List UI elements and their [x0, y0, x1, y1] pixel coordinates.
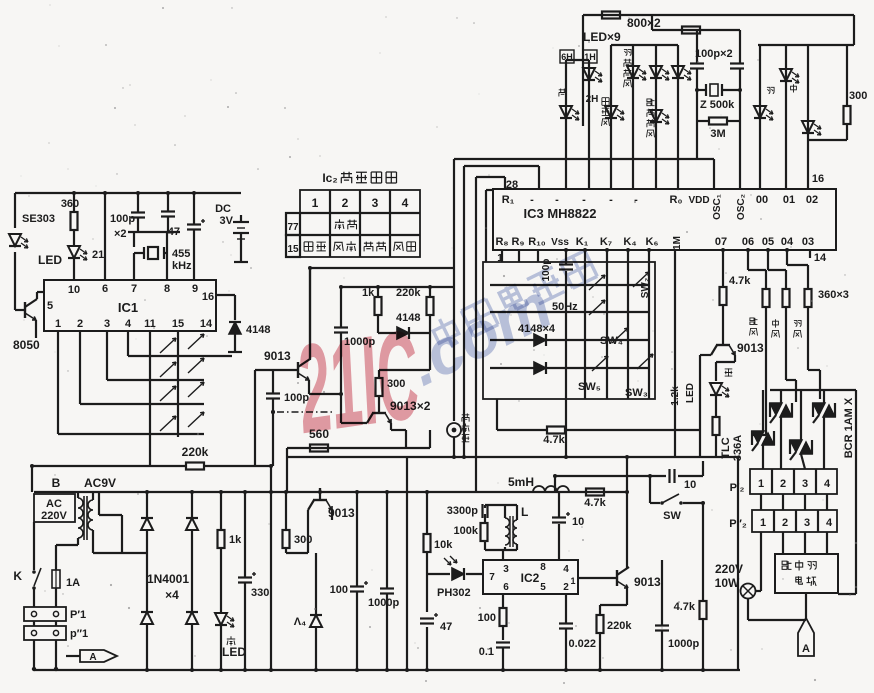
- label 定时: [364, 242, 386, 252]
- key switch S2b: [188, 358, 204, 373]
- transistor 9013 out: [617, 567, 661, 589]
- node P1 dots: [32, 667, 36, 671]
- LED red indicator: [68, 246, 87, 260]
- svg-text:SW₅: SW₅: [578, 381, 601, 393]
- resistor 1k c: [362, 287, 382, 315]
- resistor 360 weak: [805, 289, 812, 307]
- op-amp U IC3 MH8822 box: [493, 189, 836, 250]
- svg-text:3: 3: [104, 318, 110, 330]
- svg-text:R₁: R₁: [502, 194, 515, 206]
- connector P1b: [24, 626, 88, 640]
- svg-text:1: 1: [758, 478, 764, 490]
- wire 220k left rail: [32, 466, 186, 492]
- inductor 5mH: [533, 486, 569, 492]
- svg-text:A: A: [89, 652, 96, 663]
- wire sw branch: [555, 476, 703, 503]
- wire crystal to pin7: [133, 253, 135, 280]
- wire bus w4: [486, 190, 493, 262]
- triac TLC336A c: [752, 431, 774, 451]
- svg-text:4.7k: 4.7k: [543, 434, 565, 446]
- watermark blue cn: [430, 249, 598, 353]
- svg-text:100k: 100k: [454, 525, 479, 537]
- svg-text:455: 455: [172, 248, 190, 260]
- table keyboard matrix grid: [286, 190, 420, 257]
- svg-text:360×3: 360×3: [818, 289, 849, 301]
- capacitor 330: [238, 572, 256, 583]
- label 风种: [394, 242, 416, 251]
- wire pin3 row: [107, 331, 204, 380]
- svg-text:Λ₄: Λ₄: [294, 616, 307, 628]
- wire 1000p col: [386, 492, 388, 670]
- node junction dash: [271, 410, 275, 414]
- svg-text:220k: 220k: [607, 620, 632, 632]
- svg-text:10: 10: [572, 516, 584, 528]
- wire y268 node: [309, 268, 311, 360]
- LED green: [215, 613, 234, 627]
- label 弱自然风 vertical: [624, 49, 632, 87]
- wire triac tops: [763, 390, 856, 594]
- wire gate3: [808, 307, 820, 399]
- resistor 1.2k: [713, 417, 720, 435]
- svg-text:7: 7: [489, 572, 495, 583]
- diode 1N4001 d2: [186, 518, 198, 530]
- svg-text:LED: LED: [38, 253, 62, 267]
- wire 10k col: [426, 492, 428, 534]
- wire osc1 pin stub: [713, 159, 715, 189]
- wire pin07 down: [722, 250, 724, 287]
- wire 100 to 0.1: [502, 626, 504, 640]
- label table row ids: [287, 222, 299, 255]
- svg-text:4: 4: [402, 196, 409, 210]
- svg-text:2: 2: [342, 196, 349, 210]
- wire cap a: [137, 193, 139, 232]
- crystal Z 500k: [697, 84, 740, 111]
- svg-text:1A: 1A: [66, 577, 80, 589]
- wire 360 top: [73, 193, 75, 212]
- transistor 8050: [25, 299, 37, 320]
- svg-text:3M: 3M: [710, 128, 725, 140]
- key switch S1a: [160, 338, 176, 353]
- wire K1 col: [584, 250, 586, 399]
- svg-text:×2: ×2: [114, 228, 127, 240]
- wire bus w1: [454, 159, 714, 421]
- wire 1k links: [378, 287, 396, 333]
- wire battery down: [234, 233, 248, 262]
- wire P2b to motor: [783, 532, 827, 554]
- node junction dots: [30, 88, 789, 672]
- capacitor 0.1: [496, 643, 510, 648]
- wire K7 col: [606, 250, 608, 399]
- wire dashed link: [277, 411, 335, 413]
- wire c2 base: [341, 394, 367, 423]
- triac TLC336A b: [813, 403, 835, 423]
- wire 05 to res: [768, 250, 786, 289]
- label IC1 top pins: [68, 283, 198, 296]
- node SW matrix box: [483, 262, 655, 399]
- svg-text:K₇: K₇: [600, 236, 612, 248]
- wire mains rail: [34, 491, 627, 493]
- svg-text:1.2k: 1.2k: [670, 386, 681, 406]
- svg-text:3: 3: [802, 478, 808, 490]
- svg-text:100p: 100p: [110, 213, 135, 225]
- wire buzzer bottom: [453, 437, 455, 457]
- wire 9013d emitter to LED: [716, 355, 735, 381]
- capacitor 100p c: [266, 394, 280, 399]
- wire 47: [193, 193, 195, 280]
- capacitor 100p a: [131, 213, 145, 218]
- inductor L: [505, 505, 528, 547]
- svg-text:50Hz: 50Hz: [552, 301, 578, 313]
- switch SW4: [612, 328, 628, 343]
- svg-text:300: 300: [849, 90, 867, 102]
- wire c1 emitter: [309, 380, 341, 394]
- wire lamp to motor bottom: [748, 598, 806, 620]
- svg-text:00: 00: [756, 194, 768, 206]
- svg-text:0.022: 0.022: [568, 638, 596, 650]
- svg-text:SW₄: SW₄: [600, 335, 623, 347]
- svg-text:360: 360: [61, 198, 79, 210]
- wire long col 407: [406, 457, 408, 670]
- resistor 800 a: [602, 12, 620, 19]
- transistor 9013 c1: [298, 359, 310, 380]
- wire Vss column: [565, 250, 567, 457]
- diode 1N4001 d1: [141, 518, 153, 530]
- wire 10k down: [426, 552, 428, 670]
- wire osc1: [696, 30, 698, 90]
- wire pin11 column: [149, 331, 151, 466]
- wire motor to A: [805, 593, 807, 620]
- svg-text:1000p: 1000p: [668, 638, 699, 650]
- resistor 3M: [709, 118, 727, 141]
- svg-text:14: 14: [200, 318, 213, 330]
- resistor 360 mid: [783, 289, 790, 307]
- wire pin4 row: [128, 331, 232, 356]
- capacitor 100p osc2: [730, 64, 744, 69]
- svg-text:VDD: VDD: [688, 195, 709, 206]
- label 照明: [335, 219, 357, 229]
- wire out collector: [626, 457, 628, 568]
- label table header 1234: [312, 196, 409, 210]
- svg-text:×4: ×4: [165, 588, 179, 602]
- connector P2a box: [750, 469, 837, 494]
- resistor 220k: [182, 445, 209, 470]
- transistor 9013 drive: [711, 333, 764, 355]
- wire 9013ps emitter: [331, 510, 333, 520]
- label 键盘矩阵: [341, 172, 397, 184]
- LED 1H: [583, 68, 602, 82]
- wire R9 stub: [518, 250, 520, 262]
- wire 10 rx links: [558, 492, 560, 560]
- svg-text:220k: 220k: [396, 287, 421, 299]
- resistor 220k c: [396, 287, 434, 315]
- label IC3 top row: [502, 194, 818, 220]
- wire 8050 collector to pin5: [37, 292, 44, 299]
- wire led col 2: [566, 60, 589, 189]
- wire c1 base: [255, 370, 298, 466]
- label 中风 vertical: [772, 319, 780, 337]
- svg-text:LED: LED: [685, 383, 696, 403]
- svg-text:15: 15: [287, 244, 299, 255]
- wire ph302 row: [427, 573, 450, 575]
- resistor 1k ps: [218, 530, 243, 548]
- wire 1k col: [220, 492, 222, 612]
- capacitor 47 rx: [420, 613, 438, 624]
- svg-text:4148: 4148: [246, 324, 270, 336]
- svg-text:IC1: IC1: [118, 300, 138, 315]
- svg-text:2: 2: [563, 582, 569, 593]
- capacitor 100p hold: [559, 265, 573, 270]
- wire 3M: [697, 90, 740, 121]
- capacitor 100p b: [161, 212, 175, 217]
- transistor 9013 ps: [308, 488, 355, 520]
- svg-text:AC: AC: [46, 498, 62, 510]
- svg-text:330: 330: [251, 587, 269, 599]
- svg-text:-: -: [582, 194, 586, 206]
- label 1H box: [583, 50, 597, 63]
- label 弱风 vertical: [794, 320, 802, 337]
- label 清除: [304, 242, 326, 252]
- wire 8050 emitter down: [35, 320, 37, 338]
- capacitor 100p osc1: [690, 64, 704, 69]
- switch SW2b: [633, 272, 649, 287]
- label IC3 bottom row: [495, 236, 814, 250]
- svg-text:5: 5: [47, 300, 53, 312]
- wire A left stub: [66, 655, 80, 657]
- wire fuse down: [55, 588, 57, 607]
- label 风速: [334, 241, 356, 251]
- wire cap b: [167, 193, 169, 232]
- svg-text:4: 4: [824, 478, 831, 490]
- svg-text:R₈: R₈: [495, 236, 508, 248]
- svg-text:8050: 8050: [13, 338, 40, 352]
- resistor 4.7k mid: [543, 427, 565, 447]
- svg-text:IC2: IC2: [521, 571, 540, 585]
- diode 4148 c: [397, 327, 409, 339]
- svg-text:SW₂: SW₂: [640, 278, 651, 299]
- wire 360 to LED to pin10: [73, 230, 75, 280]
- wire 04 to res: [787, 250, 808, 289]
- wire right group top: [758, 45, 854, 189]
- wire R8 stub: [501, 250, 503, 262]
- crystal 455kHz: [134, 247, 192, 272]
- wire A4 col: [315, 553, 317, 670]
- key switch S1b: [188, 334, 204, 349]
- svg-text:220V: 220V: [41, 510, 67, 522]
- resistor 4.7k series: [584, 489, 606, 510]
- svg-text:01: 01: [783, 194, 795, 206]
- wire 9013d base: [700, 355, 711, 430]
- wire led col 4: [611, 45, 678, 189]
- svg-text:1000p: 1000p: [368, 597, 399, 609]
- wire 1M column: [674, 250, 676, 457]
- svg-text:4: 4: [125, 318, 132, 330]
- wire osc2: [739, 30, 741, 90]
- svg-text:10k: 10k: [434, 539, 453, 551]
- svg-text:100: 100: [478, 612, 496, 624]
- svg-text:OSC₂: OSC₂: [736, 194, 747, 220]
- wire xfmr sec bottom: [93, 530, 147, 553]
- svg-text:Ic₂: Ic₂: [322, 171, 337, 185]
- svg-text:3: 3: [503, 564, 509, 575]
- diode 4148 m2: [534, 362, 546, 374]
- svg-text:1k: 1k: [229, 534, 242, 546]
- svg-text:15: 15: [172, 318, 184, 330]
- wire IC2 pin col 503: [502, 594, 504, 608]
- svg-text:3V: 3V: [220, 215, 234, 227]
- svg-text:DC: DC: [215, 203, 231, 215]
- LED nat-wind-3: [672, 66, 691, 80]
- wire green led down: [220, 626, 222, 670]
- svg-text:47: 47: [440, 621, 452, 633]
- wire bottom rail: [34, 669, 740, 671]
- capacitor 3300p: [483, 504, 488, 518]
- svg-text:AC9V: AC9V: [84, 476, 116, 490]
- resistor 100 rx: [500, 608, 507, 626]
- LED medium: [780, 69, 799, 83]
- wire right col 738: [737, 457, 739, 670]
- wire pin2 row: [80, 331, 204, 404]
- wire osc net: [485, 505, 517, 560]
- wire 4.7k row: [497, 430, 700, 457]
- wire 220k links: [429, 287, 431, 333]
- wire out base: [578, 577, 617, 579]
- svg-text:4.7k: 4.7k: [729, 275, 751, 287]
- svg-text:BCR 1AM X: BCR 1AM X: [843, 397, 855, 458]
- svg-text:K: K: [13, 569, 22, 583]
- wire 1.2k to rail: [715, 435, 717, 457]
- wire triac outs: [763, 417, 824, 469]
- wire 9013ps base leg: [307, 510, 309, 553]
- wire 1000p out links: [661, 560, 663, 670]
- capacitor 1000p out: [655, 626, 669, 631]
- diode A4: [310, 615, 322, 627]
- LED strong: [802, 121, 821, 135]
- LED sleep: [605, 106, 624, 120]
- wire 330 col: [244, 492, 246, 670]
- svg-text:Z 500k: Z 500k: [700, 99, 735, 111]
- connector P2b box: [752, 510, 837, 532]
- switch SW3: [637, 354, 653, 369]
- diode 4148 m1: [534, 334, 546, 346]
- wire osc down to IC3: [697, 121, 740, 189]
- svg-text:9: 9: [192, 283, 198, 295]
- fuse 1A: [52, 570, 80, 589]
- svg-text:5mH: 5mH: [508, 475, 534, 489]
- svg-text:kHz: kHz: [172, 260, 192, 272]
- svg-text:5: 5: [540, 582, 546, 593]
- svg-text:05: 05: [762, 236, 774, 248]
- diode 1N4001 d4: [186, 612, 198, 624]
- resistor 300 b: [283, 530, 313, 548]
- svg-text:9013: 9013: [737, 341, 764, 355]
- svg-text:3: 3: [372, 196, 379, 210]
- wire lamp branch: [756, 532, 761, 591]
- resistor 360 strong: [763, 289, 770, 307]
- wire node under caps: [128, 232, 180, 280]
- battery DC 3V: [215, 203, 249, 239]
- svg-text:R₉: R₉: [512, 236, 525, 248]
- wire spare col: [270, 492, 272, 670]
- watermark 21IC red: [288, 303, 428, 460]
- switch SW manual: [660, 494, 683, 522]
- connector A right: [798, 618, 814, 656]
- svg-text:P′1: P′1: [70, 609, 86, 621]
- lamp 220V 10W: [741, 584, 756, 599]
- svg-text:p″1: p″1: [70, 628, 88, 640]
- wire pin1 row: [58, 331, 204, 434]
- svg-text:IC3 MH8822: IC3 MH8822: [524, 206, 597, 221]
- resistor 4.7k out: [674, 601, 707, 619]
- wire LED to 1.2k: [715, 395, 717, 417]
- resistor 800 b: [682, 27, 700, 34]
- svg-text:OSC₁: OSC₁: [712, 194, 723, 220]
- svg-text:-: -: [634, 194, 638, 206]
- svg-text:77: 77: [287, 222, 299, 233]
- capacitor 0.022: [559, 624, 573, 629]
- resistor 220k out: [597, 615, 633, 633]
- label 强风 vertical: [750, 318, 758, 336]
- op-amp U IC1 box: [44, 280, 216, 331]
- wire bridge left col: [146, 492, 148, 670]
- wire gate2: [786, 307, 796, 402]
- svg-text:4: 4: [563, 564, 569, 575]
- resistor 300 c: [376, 378, 406, 396]
- svg-text:B: B: [52, 476, 61, 490]
- connector A left: [80, 650, 117, 663]
- wire 300 top-right: [808, 45, 847, 140]
- label 绿: [227, 636, 235, 645]
- wire matrix row1: [490, 284, 649, 286]
- svg-text:1N4001: 1N4001: [147, 572, 189, 586]
- transistor 9013 c2: [367, 401, 391, 423]
- svg-text:02: 02: [806, 194, 818, 206]
- wire bridge bend: [99, 492, 122, 553]
- svg-text:21IC: 21IC: [288, 303, 428, 460]
- svg-text:Vss: Vss: [551, 237, 569, 248]
- label 强中弱: [782, 560, 816, 570]
- key switch S2a: [160, 362, 176, 377]
- wire K4 col: [627, 250, 629, 399]
- capacitor 47: [187, 219, 205, 230]
- svg-text:6H: 6H: [561, 52, 573, 62]
- diode 1N4001 d3: [141, 612, 153, 624]
- capacitor 1000p ps: [380, 589, 394, 594]
- label 1N4001 x4: [147, 572, 189, 602]
- watermark blue com: [397, 269, 563, 399]
- wire 0.022 links: [565, 594, 567, 670]
- motor box: [775, 554, 838, 593]
- wire transformer pri bottom: [56, 538, 78, 570]
- svg-text:2: 2: [77, 318, 83, 330]
- label 蜂鸣器 vertical: [462, 413, 470, 442]
- wire h287: [341, 286, 454, 288]
- resistor 10k: [424, 534, 454, 552]
- wire bus w2: [464, 166, 539, 457]
- svg-text:9013: 9013: [634, 575, 661, 589]
- svg-text:16: 16: [812, 173, 824, 185]
- wire gate1: [752, 307, 766, 435]
- wire c1 collector: [309, 268, 311, 359]
- wire pin15 column: [177, 331, 179, 437]
- op-amp U IC2 box: [483, 560, 578, 594]
- svg-text:1: 1: [55, 318, 61, 330]
- svg-text:K₆: K₆: [646, 236, 659, 248]
- wire pin6 column: [104, 193, 106, 280]
- resistor 100k: [481, 523, 488, 541]
- capacitor 100 ps: [350, 581, 368, 592]
- svg-text:1M: 1M: [672, 236, 683, 250]
- resistor 560: [309, 427, 329, 452]
